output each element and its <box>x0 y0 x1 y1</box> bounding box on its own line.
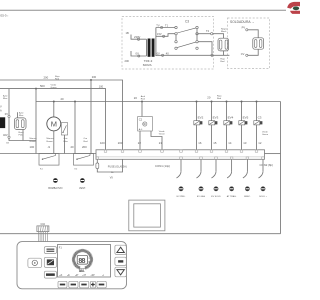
transformer TRF-1 core (cut at edge) <box>0 117 5 128</box>
terminal 0V primary <box>138 55 140 57</box>
dial inner ring <box>74 251 92 269</box>
terminal 0V <box>8 115 10 117</box>
svg-text:EV SOLD: EV SOLD <box>211 196 221 198</box>
wire 0V into TRF-3 <box>131 51 147 56</box>
button synergic <box>44 271 56 278</box>
terminal 40V <box>8 136 10 138</box>
display bezel <box>58 245 111 278</box>
svg-text:15V: 15V <box>157 32 162 36</box>
contact terminals left column <box>175 26 177 28</box>
svg-text:888.: 888. <box>79 270 86 274</box>
ribbon cable to panel <box>38 232 47 242</box>
output drop EV PRE <box>177 159 186 198</box>
terminal 230V <box>137 38 139 40</box>
svg-text:EV3: EV3 <box>213 115 219 119</box>
svg-text:40V: 40V <box>3 133 8 137</box>
svg-text:Azul: Azul <box>141 95 146 98</box>
wire H2 (net 100) <box>0 89 106 150</box>
wire gas valve to CV <box>248 49 258 55</box>
svg-text:EV GAS: EV GAS <box>197 195 206 198</box>
junction on H1 <box>90 79 92 81</box>
svg-text:-9: -9 <box>48 145 51 149</box>
jumper right column <box>196 29 198 41</box>
svg-text:EV PRE.: EV PRE. <box>177 196 186 198</box>
wire H1 (net 200) <box>0 80 123 150</box>
switch box K1 (pump) <box>39 154 59 166</box>
capacitor (vent) body <box>218 38 229 51</box>
switch box K2 (fan) <box>74 154 94 166</box>
svg-text:%: % <box>88 258 90 260</box>
wire PV to gas valve <box>248 30 258 38</box>
svg-text:SOLDADURA →: SOLDADURA → <box>230 20 255 24</box>
C2 wire to pin 21 <box>151 131 162 150</box>
up button <box>115 245 126 254</box>
thermal protector bottom wire <box>64 135 66 154</box>
choke / rectifier block <box>14 118 26 130</box>
svg-text:200: 200 <box>82 145 87 149</box>
strip bottom pin ticks <box>96 157 264 159</box>
contact arm 1 <box>177 28 196 33</box>
svg-text:22: 22 <box>138 141 142 145</box>
svg-text:Negro: Negro <box>221 27 228 30</box>
svg-text:BOMBA H2O: BOMBA H2O <box>48 187 62 190</box>
switch feed line <box>0 153 96 155</box>
svg-text:0V: 0V <box>5 112 8 116</box>
svg-text:Green: Green <box>262 133 269 136</box>
svg-text:88: 88 <box>78 258 85 266</box>
bottom button 3 <box>80 281 89 288</box>
svg-text:0V: 0V <box>157 51 160 55</box>
svg-text:SREC.: SREC. <box>244 196 251 198</box>
C2 wire to pin 22 <box>139 131 141 150</box>
svg-text:Blue: Blue <box>19 115 24 117</box>
fuse F1 <box>96 159 98 163</box>
svg-text:E5-3·›: E5-3·› <box>1 14 9 18</box>
output drop AT TRAS <box>227 159 237 198</box>
contact terminals right column <box>196 26 198 28</box>
svg-text:200: 200 <box>125 59 130 63</box>
svg-text:20: 20 <box>71 145 75 149</box>
svg-text:Marron: Marron <box>47 137 55 140</box>
solenoid valve EV2 <box>194 101 204 151</box>
svg-text:100: 100 <box>99 85 104 89</box>
motor bottom wire <box>53 131 55 154</box>
solenoid valve EV5 <box>239 101 249 151</box>
terminal strip CON1 <box>96 150 265 160</box>
svg-text:21: 21 <box>159 141 163 145</box>
down button <box>115 267 126 277</box>
wire from H2 to 0V terminal <box>8 89 10 116</box>
svg-text:▪SP: ▪SP <box>91 275 95 277</box>
solenoid valve EV4 <box>224 101 234 151</box>
svg-text:Azul: Azul <box>19 112 24 115</box>
solenoid valve EV3 <box>209 101 219 151</box>
output drop SREC <box>243 159 251 198</box>
svg-text:14: 14 <box>228 141 232 145</box>
vertical wire x=91 <box>90 80 92 154</box>
jumper left column <box>175 35 177 41</box>
svg-text:EV2: EV2 <box>198 115 204 119</box>
junction terminal on 0V rail <box>211 54 213 56</box>
svg-text:Marron: Marron <box>30 137 38 140</box>
button torch mode <box>44 257 56 267</box>
svg-text:VENT.: VENT. <box>79 187 86 190</box>
svg-text:Verde: Verde <box>159 130 165 133</box>
motor M1 <box>47 117 61 131</box>
svg-text:Verde: Verde <box>51 83 57 86</box>
svg-text:15: 15 <box>213 141 217 145</box>
svg-text:CV: CV <box>241 52 245 56</box>
vent drop wire x=75 <box>74 102 76 154</box>
bottom button 5 <box>97 281 106 288</box>
svg-text:EV4: EV4 <box>228 115 234 119</box>
thermal protector box <box>61 123 67 135</box>
output drop EV SOLD <box>211 159 221 198</box>
logo (red, top-right corner, cut off) <box>287 2 300 14</box>
svg-text:Blue: Blue <box>64 141 69 143</box>
dashed enclosure box (transformer / C3 section) <box>122 17 214 70</box>
svg-text:C3: C3 <box>185 19 189 23</box>
svg-text:Verde: Verde <box>262 130 268 133</box>
relay coil C2 box <box>138 117 153 132</box>
power button <box>28 258 42 268</box>
choke top stub <box>17 112 19 118</box>
svg-text:200: 200 <box>118 141 123 145</box>
svg-text:200: 200 <box>44 76 49 80</box>
wire contact row3 to 0V rail <box>198 42 212 54</box>
7-segment window <box>77 255 87 264</box>
svg-text:200: 200 <box>92 75 97 79</box>
svg-text:Green: Green <box>51 86 58 89</box>
svg-text:PV: PV <box>242 26 246 30</box>
display window double rectangle <box>129 200 165 231</box>
svg-text:100: 100 <box>30 145 35 149</box>
C2 feed stub from H3 <box>141 102 143 117</box>
equal button <box>115 257 126 265</box>
svg-text:16: 16 <box>198 141 202 145</box>
svg-text:EV5: EV5 <box>243 115 249 119</box>
svg-text:C2: C2 <box>139 118 143 122</box>
vertical wire x=36 <box>35 89 37 154</box>
bottom button 4 (+) <box>90 281 95 288</box>
wire T2 to capacitor top <box>213 34 224 39</box>
svg-text:1B: 1B <box>126 31 129 35</box>
connector CON4 body <box>37 226 49 232</box>
socket ventilador <box>79 178 86 190</box>
svg-text:SOLD +: SOLD + <box>259 196 268 198</box>
svg-text:▪2T: ▪2T <box>75 275 79 277</box>
bottom button 1 <box>58 281 67 288</box>
svg-text:13: 13 <box>243 141 247 145</box>
svg-text:FUSE (GL/6.3A): FUSE (GL/6.3A) <box>108 165 127 169</box>
choke bottom stub <box>22 130 24 141</box>
relay coil C3 <box>254 101 263 151</box>
motor M1 stem <box>53 102 55 118</box>
bottom button 2 <box>69 281 78 288</box>
svg-text:▪2t: ▪2t <box>60 274 63 277</box>
svg-text:CON2 (8p): CON2 (8p) <box>260 163 274 167</box>
svg-text:500: 500 <box>40 84 45 88</box>
svg-text:▪4T: ▪4T <box>83 275 87 277</box>
svg-text:20: 20 <box>61 97 65 101</box>
gas valve body <box>253 38 264 49</box>
svg-text:M: M <box>51 120 57 129</box>
svg-text:600VA: 600VA <box>143 63 152 67</box>
svg-text:Black: Black <box>221 31 227 33</box>
contact arm 2 <box>177 42 196 48</box>
front panel outline <box>17 242 127 289</box>
top border line <box>0 9 286 11</box>
svg-text:20: 20 <box>207 96 211 100</box>
socket bomba H2O <box>48 178 62 190</box>
svg-text:12: 12 <box>258 141 262 145</box>
button wire feed <box>44 247 56 254</box>
svg-text:Blue: Blue <box>3 98 8 100</box>
svg-text:20: 20 <box>134 96 138 100</box>
strip right tail to bus <box>265 153 281 155</box>
winding line <box>8 118 10 136</box>
bottom bus line <box>0 233 281 235</box>
svg-text:Brown: Brown <box>47 140 54 143</box>
svg-text:Azul: Azul <box>3 95 8 98</box>
transformer TRF-3 primary winding <box>146 39 148 56</box>
dashed enclosure box SOLDADURA <box>228 18 270 69</box>
svg-text:Green: Green <box>159 132 166 135</box>
right side vertical bus <box>280 102 282 234</box>
dial tick ring <box>72 249 93 270</box>
transformer TRF-3 secondary winding <box>155 28 157 57</box>
output drop SOLD + <box>259 159 268 198</box>
output drop EV GAS <box>197 159 206 198</box>
wire H3 (net 20) <box>36 101 281 103</box>
svg-text:V: V <box>0 105 2 109</box>
wire 40V to pump drop <box>9 138 36 140</box>
transformer TRF-3 core <box>148 39 151 57</box>
svg-text:C3: C3 <box>258 115 262 119</box>
capacitor bottom wire <box>223 51 225 55</box>
wire contact output to T2 <box>198 33 210 35</box>
strip top pin ticks <box>104 150 258 152</box>
svg-text:CON1 (14p): CON1 (14p) <box>155 164 170 168</box>
svg-text:▪4t: ▪4t <box>67 274 70 277</box>
junction H2 / left drop <box>35 88 37 90</box>
svg-text:AT TRAS.: AT TRAS. <box>227 195 237 198</box>
svg-text:TV: TV <box>156 24 160 28</box>
svg-text:100: 100 <box>100 141 105 145</box>
wire 230V into TRF-3 <box>131 35 147 40</box>
svg-text:A: A <box>0 108 2 112</box>
